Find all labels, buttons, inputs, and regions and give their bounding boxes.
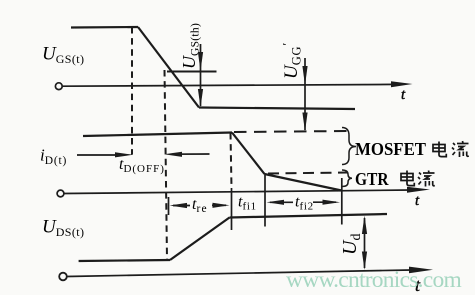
wire: U_DS low level bbox=[79, 260, 170, 261]
brace: GTR current range bbox=[342, 170, 352, 187]
arrowhead: U_d bottom bbox=[362, 252, 367, 271]
wire: dashed vertical at threshold crossing bbox=[165, 70, 168, 259]
arrowhead: axis 3 bbox=[409, 267, 433, 274]
wire: U_DS rising slope bbox=[170, 218, 230, 261]
svg-text:MOSFET: MOSFET bbox=[355, 139, 426, 159]
dimension arrow: U_GS(th) line bbox=[200, 44, 202, 106]
arrowhead: axis 2 bbox=[407, 187, 430, 193]
dimension arrow: t_re right head bbox=[212, 204, 226, 206]
wire: U_GS falling slope bbox=[138, 27, 199, 108]
dimension arrow: t_fi2 right head bbox=[313, 201, 336, 203]
brace: MOSFET current range bbox=[342, 128, 356, 165]
arrowhead: U_d top bbox=[362, 216, 367, 235]
dimension arrow: U_GG' line bbox=[304, 58, 306, 130]
dimension arrow: t_re left head bbox=[173, 205, 190, 207]
wire: i_D high level bbox=[83, 133, 232, 137]
dimension arrow: t_D(OFF) left tail with right-pointing head bbox=[77, 154, 124, 156]
wire: U_GS low level bbox=[199, 108, 355, 110]
arrowhead: U_GG' lower (down to dashed i_D top) bbox=[302, 113, 307, 132]
tick: t_re right / t_fi1 left boundary vertical bbox=[231, 188, 233, 230]
glyph: 流 (GTR row) bbox=[418, 171, 435, 187]
glyph: 流 (MOSFET row) bbox=[452, 141, 469, 157]
arrowhead: U_GS(th) lower (down to low level) bbox=[198, 89, 203, 108]
wire: dashed vertical at i_D fall start bbox=[231, 133, 232, 188]
wire: dashed GTR level line bbox=[268, 173, 348, 174]
dimension arrow: t_D(OFF) right tail with left-pointing head bbox=[172, 153, 210, 155]
wire: U_GS high level bbox=[71, 26, 138, 29]
wire: dashed i_D top level extension bbox=[234, 131, 348, 132]
tick: i_D tail end vertical bbox=[341, 178, 343, 225]
node: axis-3 origin circle bbox=[59, 273, 67, 281]
wire: dashed vertical at fall start bbox=[131, 27, 133, 155]
node: axis-2 origin circle bbox=[57, 190, 64, 197]
tick: t_re left boundary bbox=[168, 197, 170, 215]
glyph: 电 (MOSFET row) bbox=[433, 142, 446, 157]
arrowhead: U_GS(th) upper (down to threshold line) bbox=[198, 52, 203, 71]
wire: U_GS(th) threshold level segment bbox=[167, 71, 217, 73]
wire: time axis 3 bbox=[67, 270, 411, 277]
dimension arrow: U_d line bbox=[364, 218, 366, 268]
wire: i_D steep fall (MOSFET turn-off) bbox=[232, 133, 265, 175]
svg-text:www.cntronics.com: www.cntronics.com bbox=[286, 267, 461, 293]
svg-text:GTR: GTR bbox=[355, 169, 389, 189]
dimension arrow: t_fi2 left head bbox=[270, 201, 293, 203]
arrowhead: U_GG' upper (down to axis 1) bbox=[302, 66, 307, 86]
tick: i_D tail start vertical bbox=[264, 174, 266, 227]
arrowhead: axis 1 bbox=[391, 81, 413, 87]
glyph: 电 (GTR row) bbox=[401, 171, 414, 186]
wire: time axis 1 bbox=[63, 84, 397, 86]
wire: time axis 2 bbox=[64, 190, 412, 194]
wire: i_D tail (GTR current fall) bbox=[265, 174, 342, 191]
node: axis-1 origin circle bbox=[55, 83, 62, 90]
wire: U_DS high level bbox=[230, 214, 388, 218]
